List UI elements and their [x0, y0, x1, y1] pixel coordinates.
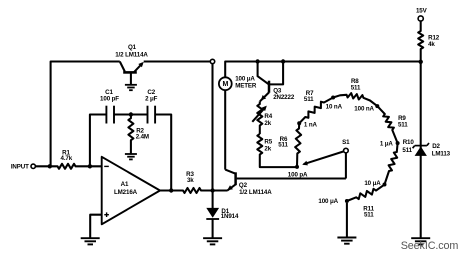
- svg-text:1/2 LM114A: 1/2 LM114A: [239, 189, 272, 196]
- svg-text:511: 511: [304, 96, 314, 103]
- svg-text:511: 511: [364, 212, 374, 219]
- svg-text:2N2222: 2N2222: [273, 94, 295, 101]
- svg-text:100 nA: 100 nA: [354, 105, 374, 112]
- svg-text:LM216A: LM216A: [114, 189, 138, 196]
- svg-text:R10: R10: [403, 139, 415, 146]
- svg-text:2k: 2k: [264, 146, 271, 153]
- svg-text:10 μA: 10 μA: [364, 180, 381, 187]
- svg-text:2k: 2k: [264, 120, 271, 127]
- svg-text:100 pF: 100 pF: [100, 95, 119, 102]
- svg-text:1/2 LM114A: 1/2 LM114A: [115, 52, 148, 59]
- svg-text:1 μA: 1 μA: [380, 141, 394, 148]
- svg-text:D2: D2: [432, 143, 440, 150]
- svg-text:INPUT: INPUT: [11, 164, 29, 171]
- svg-text:1N914: 1N914: [221, 213, 239, 220]
- svg-text:10 nA: 10 nA: [326, 104, 343, 111]
- svg-text:R4: R4: [264, 113, 272, 120]
- svg-text:15V: 15V: [416, 8, 428, 15]
- svg-text:SeekIC.com: SeekIC.com: [401, 240, 459, 252]
- svg-text:4.7k: 4.7k: [61, 155, 73, 162]
- svg-text:3k: 3k: [187, 177, 194, 184]
- svg-text:Q1: Q1: [128, 44, 137, 51]
- svg-text:M: M: [222, 81, 228, 88]
- svg-text:511: 511: [398, 122, 408, 129]
- svg-text:511: 511: [278, 142, 288, 149]
- svg-text:100 μA: 100 μA: [235, 75, 255, 82]
- svg-text:S1: S1: [342, 139, 350, 146]
- svg-text:511: 511: [402, 147, 412, 154]
- svg-text:R5: R5: [264, 139, 272, 146]
- svg-text:511: 511: [351, 84, 361, 91]
- svg-text:2.4M: 2.4M: [136, 134, 149, 141]
- svg-text:2 μF: 2 μF: [145, 95, 158, 102]
- svg-text:METER: METER: [235, 83, 257, 90]
- svg-text:4k: 4k: [428, 41, 435, 48]
- svg-text:A1: A1: [121, 181, 129, 188]
- svg-text:100 μA: 100 μA: [318, 198, 338, 205]
- svg-text:100 pA: 100 pA: [288, 172, 308, 179]
- svg-text:LM113: LM113: [432, 151, 451, 158]
- svg-text:1 nA: 1 nA: [304, 121, 318, 128]
